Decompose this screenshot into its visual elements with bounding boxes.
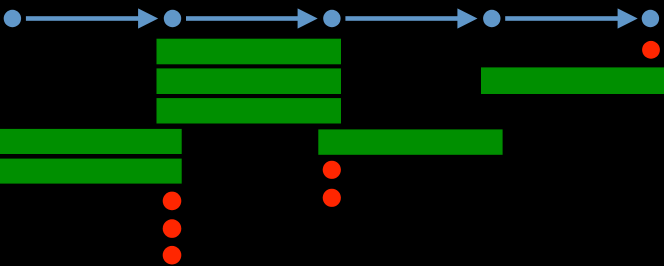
red ellipsis dot middle column 1 (323, 161, 341, 179)
timeline arrow 3 head (457, 8, 477, 28)
green interval bar D (right, clipped at right edge) (481, 67, 664, 94)
red ellipsis dot left column 1 (163, 192, 182, 211)
green interval bar C (middle) (318, 129, 502, 154)
green interval bar B1 (left, clipped at left edge) (0, 129, 182, 154)
timeline arrow 4 head (618, 8, 638, 28)
green interval bar A1 (top block row 1) (157, 39, 342, 65)
green interval bar A3 (top block row 3) (157, 98, 342, 123)
red ellipsis dot left column 2 (163, 219, 182, 238)
red ellipsis dot left column 3 (163, 246, 182, 265)
node: timeline dot 4 (483, 10, 500, 27)
timeline arrow 1 head (138, 8, 158, 28)
timeline arrow 2 head (298, 8, 318, 28)
node: timeline dot 3 (323, 10, 340, 27)
red ellipsis dot middle column 2 (323, 189, 341, 207)
node: timeline dot 5 (642, 10, 659, 27)
wire: timeline arrow 3 shaft (345, 16, 459, 21)
node: timeline dot 2 (164, 10, 181, 27)
green interval bar A2 (top block row 2) (157, 68, 342, 94)
wire: timeline arrow 1 shaft (26, 16, 140, 21)
green interval bar B2 (left, clipped at left edge) (0, 159, 182, 184)
node: timeline dot 1 (4, 10, 21, 27)
wire: timeline arrow 4 shaft (505, 16, 619, 21)
red event dot (top right) (642, 41, 660, 59)
wire: timeline arrow 2 shaft (186, 16, 300, 21)
